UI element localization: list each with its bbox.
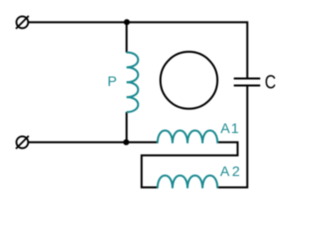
svg-text:A1: A1 [221, 120, 241, 136]
svg-text:A2: A2 [220, 163, 242, 179]
svg-text:P: P [108, 73, 117, 89]
svg-text:C: C [265, 71, 276, 93]
